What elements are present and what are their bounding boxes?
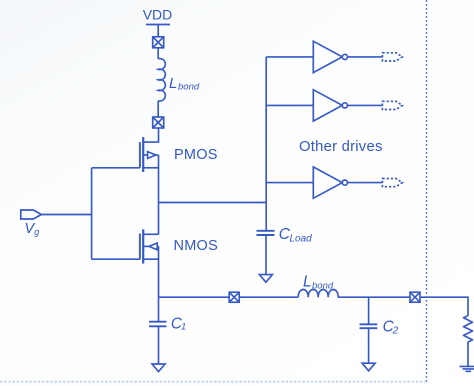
wire [157, 48, 159, 59]
label C1 [171, 315, 186, 332]
wire [348, 104, 383, 106]
PMOS body lead [143, 154, 158, 156]
PMOS drain lead [143, 167, 158, 169]
wire node to top plate [265, 203, 267, 231]
wire to resistor corner [420, 297, 468, 315]
label PMOS [174, 147, 218, 163]
bubble U3 [342, 180, 347, 185]
transistor NMOS [140, 229, 159, 263]
resistor R1 [464, 316, 473, 342]
bubble U1 [342, 54, 347, 59]
NMOS drain lead [143, 233, 158, 235]
label Vg [25, 221, 40, 237]
wire column to plate [158, 297, 160, 322]
inverter triangle U1 [313, 41, 342, 72]
chip boundary (dashed vertical) [426, 0, 428, 382]
inductor Lbond (bottom, horizontal) [298, 290, 338, 298]
PMOS channel [142, 137, 144, 172]
CLoad plates [257, 231, 275, 235]
svg-text:bond: bond [178, 82, 200, 93]
wire (pad to PMOS source) [143, 128, 158, 142]
ground (open triangle) [152, 364, 165, 372]
svg-text:VDD: VDD [143, 7, 173, 23]
pad X4 [410, 292, 420, 302]
capacitor C2 [360, 297, 378, 371]
PMOS gate plate [139, 142, 141, 168]
PMOS body arrow (points right) [148, 152, 156, 159]
dashed output port 2 [382, 101, 402, 109]
label Lbond (top) [169, 75, 200, 93]
capacitor CLoad [257, 203, 275, 283]
chip boundary (dotted bottom) [0, 381, 427, 383]
svg-text:PMOS: PMOS [174, 147, 218, 163]
pad X3 [229, 292, 239, 302]
svg-text:bond: bond [312, 280, 334, 291]
bottom node wire (NMOS source rail) [159, 296, 230, 298]
wire plate to ground [158, 326, 160, 364]
svg-text:1: 1 [181, 322, 186, 333]
svg-text:NMOS: NMOS [174, 238, 219, 254]
inverter bus wire [265, 57, 267, 203]
C2 plates [360, 324, 378, 328]
dashed output port 1 [382, 53, 402, 61]
wire [266, 182, 313, 184]
pad X1 (VDD pad) [153, 37, 164, 48]
inverter U2 [266, 90, 402, 121]
ground (open triangle) [259, 275, 272, 283]
NMOS channel [142, 229, 144, 263]
wire [266, 56, 313, 58]
wire NMOS drain column up to output node [158, 203, 160, 235]
wire [239, 296, 298, 298]
output node wire [159, 202, 267, 204]
svg-text:L: L [169, 75, 177, 92]
wire [348, 182, 383, 184]
wire plate to ground [368, 328, 370, 363]
inverter U3 [266, 167, 402, 198]
NMOS body lead [143, 245, 158, 247]
label C2 [383, 318, 399, 336]
NMOS gate plate [139, 234, 141, 260]
svg-text:Load: Load [290, 233, 313, 244]
wire PMOS drain column to output node [158, 155, 160, 203]
NMOS source lead [143, 258, 158, 260]
label NMOS [174, 238, 219, 254]
inductor Lbond (top, vertical) [158, 59, 165, 102]
label Other drives [299, 139, 383, 155]
wire [266, 104, 313, 106]
input port Vg [21, 210, 42, 219]
gate bus wire [92, 168, 140, 259]
wire [348, 56, 383, 58]
pad X2 [153, 117, 164, 128]
transistor PMOS [140, 137, 159, 172]
svg-text:L: L [303, 273, 312, 290]
label CLoad [279, 226, 312, 244]
wire resistor to ground [467, 342, 469, 367]
bubble U2 [342, 103, 347, 108]
VDD supply bar [146, 25, 170, 37]
ground (open triangle) [362, 363, 375, 371]
inverter U1 [266, 41, 402, 72]
wire [157, 101, 159, 117]
NMOS body arrow (points left) [149, 243, 157, 250]
wire input to gate bus [41, 214, 91, 216]
svg-text:Other drives: Other drives [299, 139, 383, 155]
VDD label [143, 7, 173, 23]
dashed output port 3 [382, 179, 402, 187]
wire [338, 296, 410, 298]
wire junction to plate [368, 297, 370, 324]
earth ground [460, 366, 474, 371]
C1 plates [149, 322, 166, 327]
wire bottom plate to ground [265, 235, 267, 275]
capacitor C1 [149, 297, 166, 371]
inverter triangle U2 [313, 90, 342, 121]
inverter triangle U3 [313, 167, 342, 198]
svg-text:2: 2 [392, 326, 399, 337]
wire NMOS source column down [158, 246, 160, 297]
svg-text:g: g [34, 227, 39, 237]
label Lbond (bottom) [303, 273, 334, 291]
